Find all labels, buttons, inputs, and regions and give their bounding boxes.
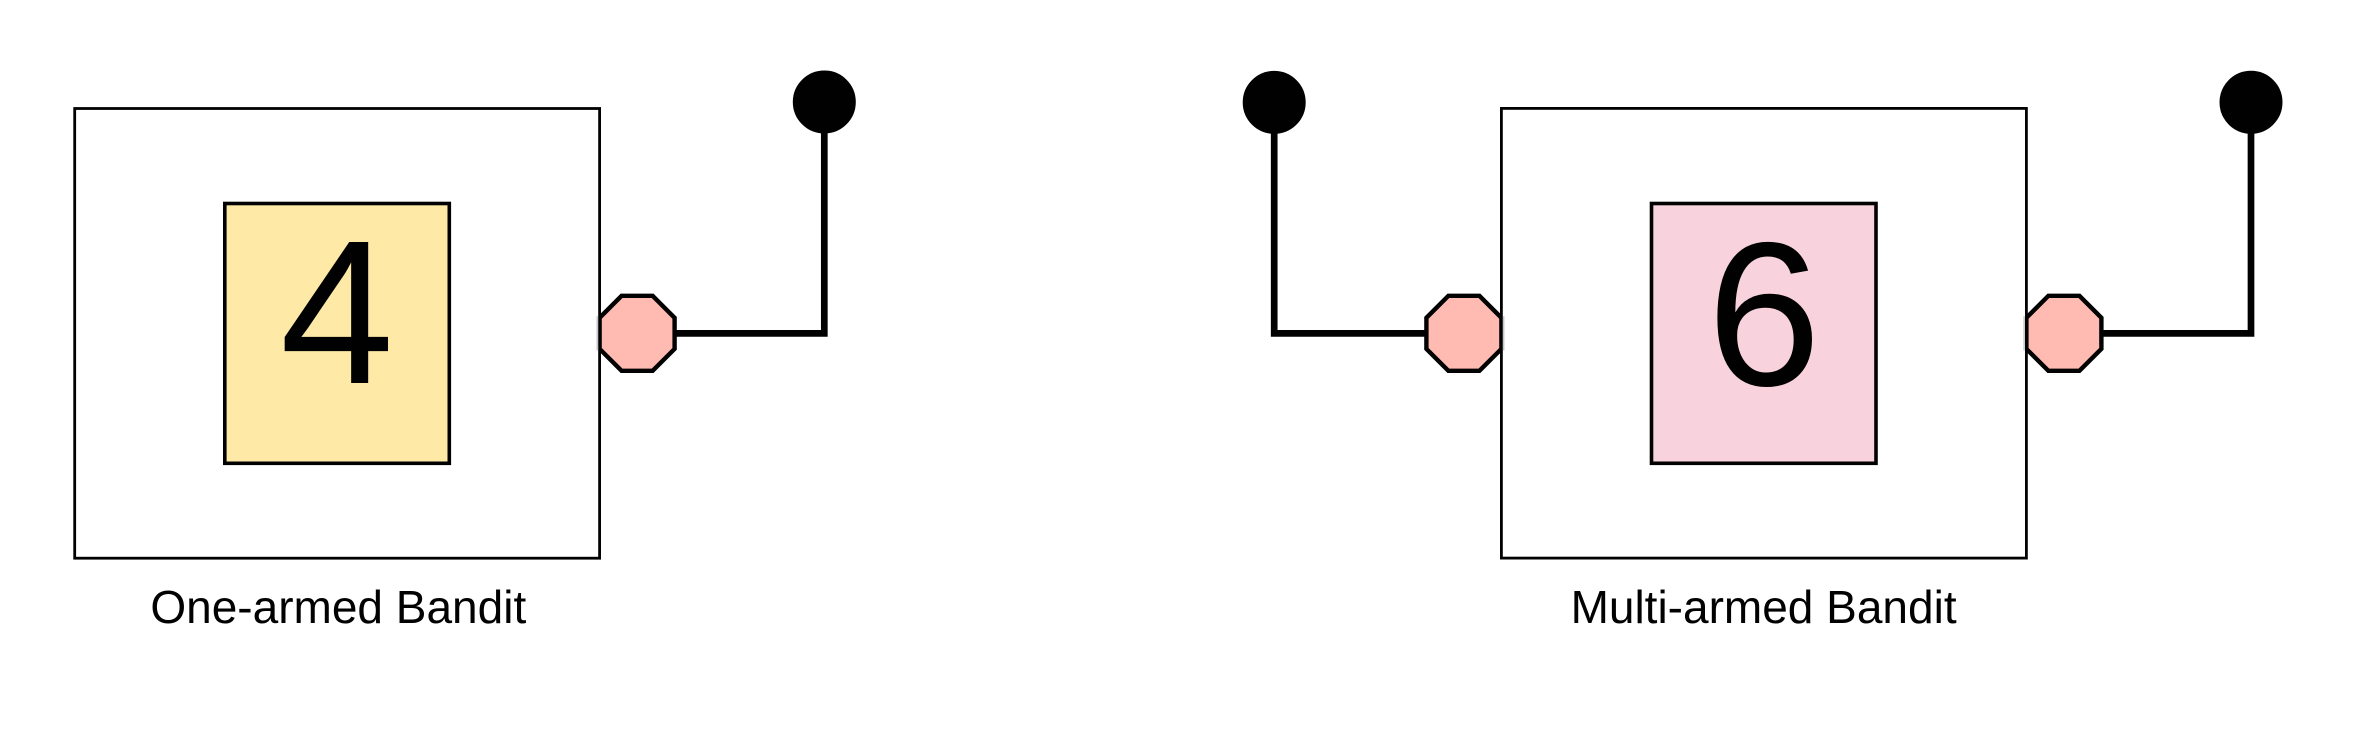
one-armed bandit machine body — [75, 109, 600, 559]
lever knob (multi-armed bandit, right) — [2221, 72, 2281, 132]
svg-text:4: 4 — [280, 198, 394, 427]
octagon port (multi-armed bandit, right side) — [2026, 296, 2101, 371]
octagon stroke sliver (antialiased remnant left of body border) — [596, 316, 598, 350]
octagon stroke sliver (left of right body border) — [2023, 316, 2025, 350]
octagon stroke sliver (right of left body border) — [1503, 316, 1505, 350]
wire: multi-armed bandit left arm — [1274, 102, 1464, 333]
lever knob (one-armed bandit) — [794, 72, 854, 132]
octagon port (one-armed bandit, right side) — [600, 296, 675, 371]
octagon port (multi-armed bandit, left side) — [1426, 296, 1501, 371]
svg-text:Multi-armed Bandit: Multi-armed Bandit — [1571, 581, 1957, 633]
reel display (yellow) — [225, 204, 449, 464]
lever knob (multi-armed bandit, left) — [1244, 72, 1304, 132]
multi-armed bandit machine body — [1501, 108, 2026, 558]
wire: multi-armed bandit right arm — [2064, 102, 2251, 333]
svg-text:One-armed Bandit: One-armed Bandit — [150, 581, 526, 633]
svg-text:6: 6 — [1707, 200, 1821, 429]
reel display (pink) — [1652, 204, 1877, 464]
wire: one-armed bandit lever arm — [637, 102, 824, 333]
